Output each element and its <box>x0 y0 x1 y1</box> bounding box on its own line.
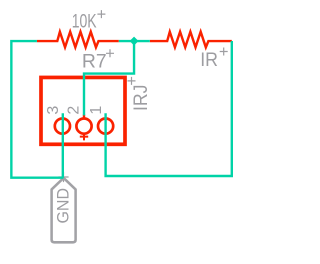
connector part IRJ box <box>41 77 125 144</box>
resistor IR <box>150 32 232 48</box>
label cross IRJ <box>128 77 136 85</box>
svg-text:3: 3 <box>45 106 62 115</box>
label cross 10K <box>97 10 105 18</box>
pin 2 bottom leg terminal <box>80 134 88 140</box>
svg-text:R7: R7 <box>82 50 107 72</box>
pin 1 circle <box>98 119 113 134</box>
svg-text:IR: IR <box>200 49 218 71</box>
svg-text:IRJ: IRJ <box>130 85 152 112</box>
pin 2 top leg <box>83 115 85 120</box>
node GND terminal cross <box>58 172 68 182</box>
label cross IR <box>220 48 228 56</box>
pin 2 circle <box>76 119 91 134</box>
ground tag GND <box>52 178 76 242</box>
svg-text:2: 2 <box>66 106 83 115</box>
label cross R7 <box>106 49 114 57</box>
svg-text:1: 1 <box>88 106 105 115</box>
junction node <box>130 37 139 46</box>
wire left loop: top-left to GND node <box>11 41 63 178</box>
svg-text:GND: GND <box>54 188 73 224</box>
wire pin 3 to GND <box>62 113 64 177</box>
svg-text:10K: 10K <box>72 10 97 32</box>
wire top middle segment <box>119 40 150 42</box>
wire junction drop to pin 2 <box>84 41 134 115</box>
resistor R7 <box>37 32 119 48</box>
pin 3 circle <box>55 119 70 134</box>
wire pin 1 to IR right loop <box>106 41 232 176</box>
